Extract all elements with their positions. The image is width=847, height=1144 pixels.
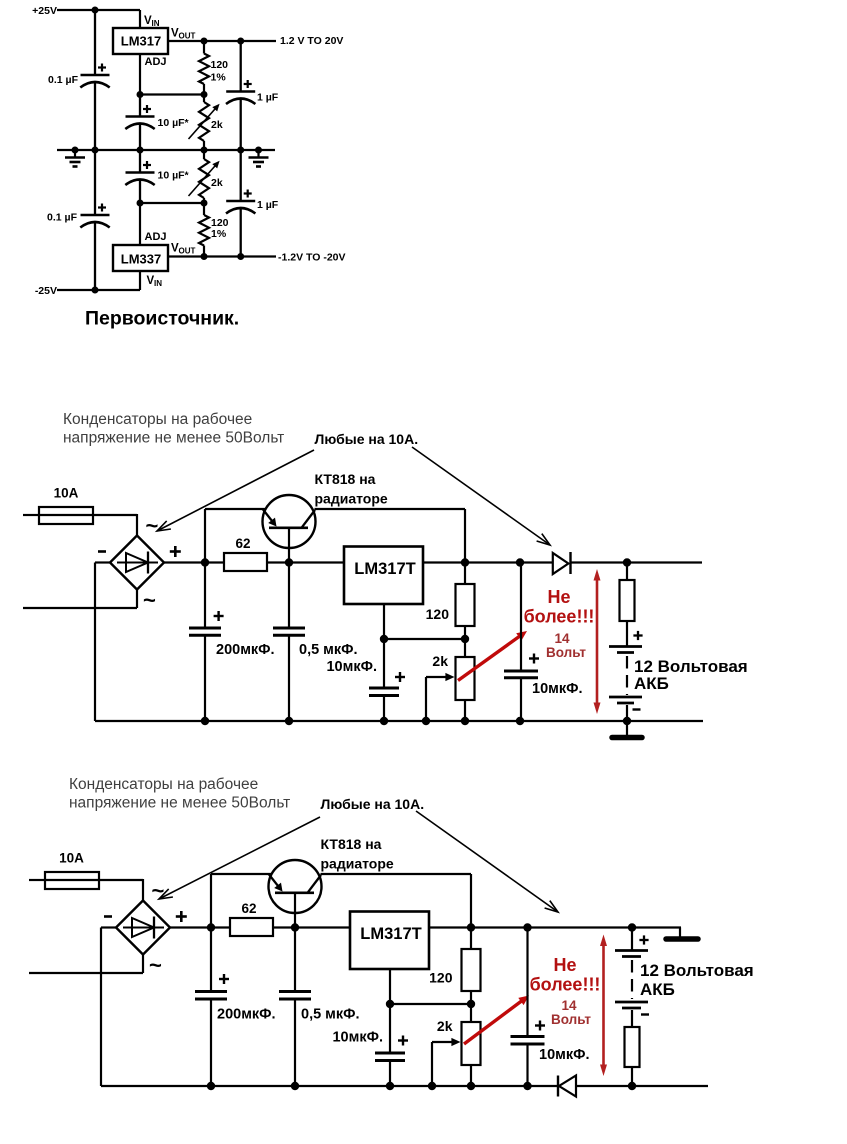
svg-text:120: 120: [426, 606, 450, 622]
label ~ bottom: [149, 953, 162, 978]
node gnd C2 junction: [137, 147, 144, 154]
svg-text:АКБ: АКБ: [634, 674, 669, 693]
wire Vout to output: [168, 40, 276, 42]
wire AC input 2: [23, 590, 137, 609]
node ADJ junction: [380, 635, 388, 643]
svg-text:10мкФ.: 10мкФ.: [532, 681, 583, 697]
wire bridge minus: [101, 928, 116, 1087]
label 200uF C7: [216, 642, 275, 658]
fuse FU2 battery v2: [625, 1010, 640, 1086]
svg-text:120: 120: [429, 970, 453, 986]
svg-text:Не: Не: [553, 955, 576, 975]
label plus C7: [214, 611, 224, 621]
wire U3 out: [429, 926, 471, 928]
label 2k R2: [211, 119, 223, 131]
resistor R1 120 1%: [199, 41, 209, 95]
label plus C7: [219, 974, 229, 984]
svg-text:1%: 1%: [211, 228, 227, 240]
label capacitors note line2: [69, 795, 290, 812]
bridge inner diode: [123, 917, 164, 939]
label 120 R6: [429, 970, 453, 986]
capacitor C3 1uF top: [226, 41, 255, 150]
label Volt red v2: [551, 1012, 591, 1027]
label LM317T: [354, 560, 415, 578]
node top-left junction: [92, 7, 99, 14]
label 10uF C10: [532, 681, 583, 697]
label 120 R1: [211, 59, 229, 71]
node R6 bottom junction: [461, 635, 469, 643]
svg-text:OUT: OUT: [179, 247, 196, 256]
red arrow to Ne bolee: [458, 631, 527, 681]
label minus battery v1: [633, 708, 641, 710]
svg-text:LM337: LM337: [121, 252, 161, 267]
capacitor C9 10uF adj: [369, 639, 399, 721]
wire AC input 2: [29, 955, 143, 974]
pointer arrow to diode: [412, 447, 550, 545]
svg-text:КТ818 на: КТ818 на: [315, 471, 376, 487]
svg-text:Вольт: Вольт: [551, 1012, 591, 1027]
node C10 bottom junction: [516, 717, 524, 725]
label ~ top: [146, 513, 159, 538]
label 10A FU1: [59, 851, 84, 866]
label plus C9: [398, 1036, 408, 1046]
transistor VT1 KT818: [269, 860, 322, 913]
label plus bridge: [170, 546, 181, 557]
wire collector top: [315, 509, 466, 563]
label -25V: [35, 285, 57, 297]
svg-text:14: 14: [561, 998, 577, 1013]
svg-text:более!!!: более!!!: [530, 975, 601, 995]
svg-text:0.1 µF: 0.1 µF: [47, 212, 78, 224]
label LM337: [121, 252, 161, 267]
svg-text:Не: Не: [547, 587, 570, 607]
wire LM317 Vin pin: [139, 10, 141, 28]
node battery bottom junction v2: [628, 1082, 636, 1090]
label KT818 line2: [321, 856, 394, 872]
svg-text:LM317: LM317: [121, 34, 161, 49]
node C10 top junction: [516, 558, 524, 566]
svg-text:+25V: +25V: [32, 5, 57, 17]
wire bridge minus: [95, 563, 110, 722]
wire U3 ADJ pin: [383, 604, 385, 639]
wire output rail v1 left: [465, 561, 553, 563]
node gnd C3 junction: [237, 147, 244, 154]
svg-text:2k: 2k: [432, 653, 448, 669]
wire ADJ row: [140, 93, 204, 95]
node C11 bottom junction: [523, 1082, 531, 1090]
node ADJ junction: [137, 91, 144, 98]
wire R5 to U3: [267, 561, 344, 563]
label 10uF C4: [158, 170, 190, 182]
wiper arrow R7: [432, 1038, 461, 1046]
wire ADJ pin down: [139, 54, 141, 95]
label KT818 line1: [315, 471, 376, 487]
label KT818 line2: [315, 491, 388, 507]
node C8 bottom junction: [291, 1082, 299, 1090]
pointer arrow to bridge: [159, 817, 320, 899]
svg-text:10мкФ.: 10мкФ.: [326, 659, 377, 675]
capacitor C1 0.1uF top: [80, 10, 109, 150]
label Vout U1: [171, 28, 196, 41]
label Vout U2: [171, 243, 196, 256]
label -1.2V TO -20V: [278, 252, 346, 264]
label 62 R5: [235, 536, 250, 551]
label plus battery v2: [639, 935, 648, 944]
svg-text:12 Вольтовая: 12 Вольтовая: [640, 961, 754, 980]
label minus battery v2: [641, 1013, 649, 1015]
svg-text:LM317T: LM317T: [354, 560, 415, 578]
svg-text:Вольт: Вольт: [546, 645, 586, 660]
svg-text:0,5 мкФ.: 0,5 мкФ.: [301, 1007, 360, 1023]
label 120 R6: [426, 606, 450, 622]
node C9 bottom junction: [386, 1082, 394, 1090]
label Vin U2: [147, 275, 163, 288]
label 1% R4: [211, 228, 227, 240]
svg-text:10 µF*: 10 µF*: [158, 170, 190, 182]
svg-text:КТ818 на: КТ818 на: [321, 836, 382, 852]
label plus C11: [535, 1021, 545, 1031]
node gnd R2 junction: [201, 147, 208, 154]
svg-text:АКБ: АКБ: [640, 980, 675, 999]
wire fuse to bridge: [99, 879, 143, 901]
capacitor C9 10uF adj: [375, 1004, 405, 1086]
wire VT1 base down: [294, 893, 296, 928]
wire emitter feed: [211, 873, 272, 875]
wire emitter riser: [210, 874, 212, 928]
svg-text:120: 120: [211, 59, 229, 71]
fuse FU1 10A: [45, 872, 99, 889]
capacitor C11 10uF out: [511, 928, 545, 1087]
label 10uF C9: [326, 659, 377, 675]
wire bottom rail v2 right: [576, 1085, 708, 1087]
svg-text:2k: 2k: [437, 1018, 453, 1034]
pointer arrow to bridge: [157, 450, 314, 531]
wire ground rail: [57, 149, 275, 151]
label 10A FU1: [54, 486, 79, 501]
label 1uF C5: [257, 199, 279, 211]
wire ADJ row: [390, 1003, 471, 1005]
label 10uF C11: [539, 1047, 590, 1063]
battery GB1 12V: [609, 647, 642, 704]
svg-text:62: 62: [241, 901, 256, 916]
node base junction: [285, 558, 293, 566]
fuse FU2 battery: [620, 563, 635, 647]
node 1uF top junction: [237, 38, 244, 45]
wire ADJ row: [384, 638, 465, 640]
wire U3 ADJ pin: [389, 969, 391, 1004]
regulator U1 LM317 box: [113, 28, 168, 54]
node bridge plus junction: [201, 558, 209, 566]
label ~ bottom: [143, 588, 156, 613]
svg-text:1 µF: 1 µF: [257, 92, 279, 104]
wire AC input 1: [29, 879, 45, 881]
svg-text:Любые на 10А.: Любые на 10А.: [315, 431, 419, 447]
capacitor C8 0.5uF: [273, 563, 305, 722]
label 200uF C7: [217, 1007, 276, 1023]
capacitor C2 10uF top: [125, 95, 154, 151]
svg-text:~: ~: [149, 953, 162, 978]
label 0.5uF C8: [299, 642, 358, 658]
node gnd stub left: [72, 147, 79, 154]
capacitor C5 1uF bottom: [226, 150, 255, 257]
wire collector top: [321, 874, 472, 928]
svg-text:Конденсаторы на рабочее: Конденсаторы на рабочее: [63, 411, 252, 428]
node collector junction: [461, 558, 469, 566]
wire -25V rail: [57, 289, 140, 291]
node R7 bottom junction: [461, 717, 469, 725]
label AKB v1 line2: [634, 674, 669, 693]
transistor VT1 KT818: [263, 495, 316, 548]
wire VT1 base down: [288, 528, 290, 563]
resistor R6 120: [462, 928, 481, 1005]
label 0.5uF C8: [301, 1007, 360, 1023]
node 1uF bottom junction: [237, 253, 244, 260]
label 10uF C2: [158, 117, 190, 129]
wire bridge plus to R5: [170, 926, 230, 928]
svg-text:14: 14: [554, 631, 570, 646]
capacitor C7 200uF: [195, 928, 227, 1087]
potentiometer R3 2k bottom: [189, 150, 220, 203]
wire emitter riser: [204, 509, 206, 563]
label LM317T: [360, 925, 421, 943]
red range arrow v2: [600, 935, 607, 1077]
capacitor C8 0.5uF: [279, 928, 311, 1087]
resistor R5 62: [230, 918, 273, 936]
svg-text:радиаторе: радиаторе: [321, 856, 394, 872]
svg-text:200мкФ.: 200мкФ.: [217, 1007, 276, 1023]
svg-text:200мкФ.: 200мкФ.: [216, 642, 275, 658]
label 10uF C9: [332, 1030, 383, 1046]
label plus C10: [529, 654, 539, 664]
svg-text:Конденсаторы на рабочее: Конденсаторы на рабочее: [69, 776, 258, 793]
label plus C9: [395, 672, 405, 682]
node base junction: [291, 923, 299, 931]
svg-text:напряжение не менее 50Вольт: напряжение не менее 50Вольт: [63, 430, 284, 447]
label +25V: [32, 5, 57, 17]
label caption Pervoistochnik: [85, 308, 239, 330]
capacitor C7 200uF: [189, 563, 221, 722]
diode VD2 output: [553, 552, 571, 574]
svg-text:2k: 2k: [211, 119, 223, 131]
diode VD3 bottom rail: [558, 1076, 576, 1097]
label capacitors note line2: [63, 430, 284, 447]
ground symbol left: [65, 150, 85, 167]
wire wiper down: [431, 1042, 433, 1086]
label plus battery v1: [633, 631, 642, 640]
potentiometer R2 2k: [189, 95, 220, 151]
wiper arrow R7: [426, 673, 455, 681]
ground symbol top right v2: [666, 928, 698, 940]
label 14 red v1: [554, 631, 570, 646]
svg-text:Первоисточник.: Первоисточник.: [85, 308, 239, 330]
wire wiper down: [425, 677, 427, 721]
label 12V battery v1 line1: [634, 657, 748, 676]
wire LM337 Vin pin: [139, 271, 141, 290]
node collector junction: [467, 923, 475, 931]
label ADJ U2: [145, 231, 167, 243]
node gnd left junction: [92, 147, 99, 154]
red range arrow v1: [594, 569, 601, 714]
node battery top junction: [623, 558, 631, 566]
wire output rail v2: [471, 926, 681, 928]
node C7 bottom junction: [201, 717, 209, 725]
svg-text:62: 62: [235, 536, 250, 551]
svg-text:0,5 мкФ.: 0,5 мкФ.: [299, 642, 358, 658]
svg-text:напряжение не менее 50Вольт: напряжение не менее 50Вольт: [69, 795, 290, 812]
label LM317: [121, 34, 161, 49]
svg-text:2k: 2k: [211, 177, 223, 189]
svg-text:-1.2V TO -20V: -1.2V TO -20V: [278, 252, 346, 264]
label minus bridge: [98, 550, 106, 553]
pointer arrow to output rail: [416, 811, 558, 912]
resistor R6 120: [456, 563, 475, 640]
battery GB1 12V v2: [615, 928, 648, 1009]
node C11 top junction: [523, 923, 531, 931]
svg-text:10A: 10A: [54, 486, 79, 501]
label AKB v2 line2: [640, 980, 675, 999]
svg-text:~: ~: [146, 513, 159, 538]
wire LM337 ADJ pin: [139, 203, 141, 245]
label capacitors note line1: [69, 776, 258, 793]
wire emitter feed: [205, 508, 266, 510]
node battery top junction v2: [628, 923, 636, 931]
node Vout junction: [201, 38, 208, 45]
resistor R4 120 1% bottom: [199, 203, 209, 257]
wire bottom rail v1: [95, 720, 703, 722]
resistor R5 62: [224, 553, 267, 571]
label 14 red v2: [561, 998, 577, 1013]
label 0.1uF C1: [48, 74, 79, 86]
label Ne red v2: [553, 955, 576, 975]
svg-text:-25V: -25V: [35, 285, 57, 297]
node battery bottom junction: [623, 717, 631, 725]
wire bottom rail v2 left: [101, 1085, 558, 1087]
label minus bridge: [104, 915, 112, 918]
svg-text:Любые на 10А.: Любые на 10А.: [321, 796, 425, 812]
svg-text:IN: IN: [154, 279, 162, 288]
label plus bridge: [176, 911, 187, 922]
label capacitors note line1: [63, 411, 252, 428]
node Vout2 junction: [201, 253, 208, 260]
regulator U3 LM317T box: [350, 912, 429, 970]
node wiper junction: [422, 717, 430, 725]
node bridge plus junction: [207, 923, 215, 931]
node C8 bottom junction: [285, 717, 293, 725]
wire R5 to U3: [273, 926, 350, 928]
svg-text:1%: 1%: [211, 72, 227, 84]
svg-text:0.1 µF: 0.1 µF: [48, 74, 79, 86]
ground symbol right: [249, 150, 269, 167]
wire +25V rail: [57, 9, 140, 11]
node ADJ2 junction: [137, 200, 144, 207]
svg-text:радиаторе: радиаторе: [315, 491, 388, 507]
svg-text:IN: IN: [152, 19, 160, 28]
fuse FU1 10A: [39, 507, 93, 524]
svg-text:ADJ: ADJ: [145, 231, 167, 243]
label ADJ U1: [145, 56, 167, 68]
red arrow to Ne bolee: [464, 996, 529, 1045]
bridge rectifier VD1: [116, 901, 170, 955]
svg-text:1.2 V TO 20V: 1.2 V TO 20V: [280, 35, 343, 47]
svg-text:~: ~: [143, 588, 156, 613]
label 1uF C3: [257, 92, 279, 104]
label any 10A: [321, 796, 425, 812]
label ~ top: [152, 878, 165, 903]
label 2k R7: [432, 653, 448, 669]
wire Vout2 to output: [168, 255, 276, 257]
ground symbol battery v1: [612, 721, 642, 738]
wire AC input 1: [23, 514, 39, 516]
node bottom-left junction: [92, 287, 99, 294]
label KT818 line1: [321, 836, 382, 852]
capacitor C6 0.1uF bottom: [80, 150, 109, 290]
label any 10A: [315, 431, 419, 447]
label 2k R3: [211, 177, 223, 189]
node R6 bottom junction: [467, 1000, 475, 1008]
svg-text:ADJ: ADJ: [145, 56, 167, 68]
label Vin U1: [144, 15, 160, 28]
node C9 bottom junction: [380, 717, 388, 725]
wire ADJ2 row: [140, 202, 204, 204]
node C7 bottom junction: [207, 1082, 215, 1090]
svg-text:LM317T: LM317T: [360, 925, 421, 943]
wire fuse to bridge: [93, 514, 137, 536]
label 1.2V TO 20V: [280, 35, 343, 47]
svg-text:~: ~: [152, 878, 165, 903]
svg-text:OUT: OUT: [179, 32, 196, 41]
node R4 top junction: [201, 200, 208, 207]
label 120 R4: [211, 217, 229, 229]
node R1 bottom junction: [201, 91, 208, 98]
node gnd stub right: [255, 147, 262, 154]
label bolee red v1: [524, 607, 595, 627]
capacitor C10 10uF out: [504, 563, 538, 722]
wire battery to rail: [626, 705, 628, 721]
node ADJ junction: [386, 1000, 394, 1008]
capacitor C4 10uF bottom: [125, 150, 154, 203]
bridge inner diode: [117, 552, 158, 574]
label 0.1uF C6: [47, 212, 78, 224]
regulator U2 LM337 box: [113, 245, 168, 271]
wire bridge plus to R5: [164, 561, 224, 563]
svg-text:10мкФ.: 10мкФ.: [539, 1047, 590, 1063]
potentiometer R7 2k: [462, 1004, 481, 1086]
label Volt red v1: [546, 645, 586, 660]
svg-text:10мкФ.: 10мкФ.: [332, 1030, 383, 1046]
node wiper junction: [428, 1082, 436, 1090]
regulator U3 LM317T box: [344, 547, 423, 605]
svg-text:10 µF*: 10 µF*: [158, 117, 190, 129]
wire U3 out: [423, 561, 465, 563]
label Ne red v1: [547, 587, 570, 607]
label 1% R1: [211, 72, 227, 84]
label bolee red v2: [530, 975, 601, 995]
potentiometer R7 2k: [456, 639, 475, 721]
node R7 bottom junction: [467, 1082, 475, 1090]
bridge rectifier VD1: [110, 536, 164, 590]
svg-text:более!!!: более!!!: [524, 607, 595, 627]
label 62 R5: [241, 901, 256, 916]
label 2k R7: [437, 1018, 453, 1034]
label 12V battery v2 line1: [640, 961, 754, 980]
svg-text:10A: 10A: [59, 851, 84, 866]
wire output rail v1 right: [571, 561, 703, 563]
svg-text:1 µF: 1 µF: [257, 199, 279, 211]
